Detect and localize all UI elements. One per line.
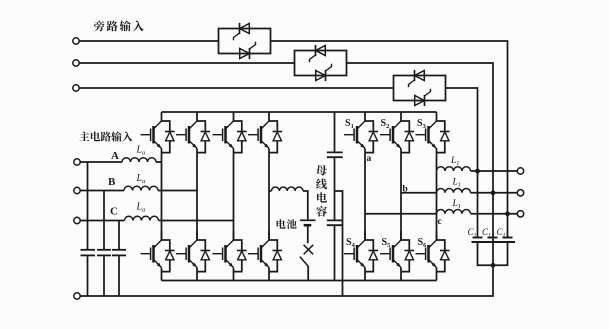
IGBT rectifier leg1 top (162, 112, 170, 153)
input filter capacitor 3 (112, 249, 126, 251)
wire inductor to battery (303, 191, 308, 219)
wire inverter leg2 midpoint (400, 153, 402, 240)
wire cap drop phase B (103, 191, 105, 250)
battery switch blade (300, 257, 308, 267)
battery label 电池 (277, 219, 286, 228)
wire cap drop phase A (87, 162, 89, 249)
junction star point (491, 263, 496, 268)
bypass input terminal S (73, 60, 79, 66)
static switch box 2 (295, 51, 347, 76)
wire bottom DC rail (162, 280, 437, 282)
bypass input terminal T (73, 85, 79, 91)
wire output row3 (471, 213, 518, 215)
wire caps to neutral (88, 256, 120, 296)
wire bypass line 2 left (79, 62, 294, 64)
IGBT rectifier leg1 bottom (162, 231, 170, 272)
wire rectifier leg2 emitter to rail (196, 272, 198, 281)
wire phase A to leg1 (156, 161, 162, 163)
junction row1/bypass3 (475, 169, 480, 174)
wire battery to switch (307, 226, 309, 243)
IGBT rectifier leg3 bottom (234, 231, 242, 272)
IGBT inverter S4 bottom (365, 231, 373, 272)
IGBT inverter S6 bottom (437, 231, 445, 272)
wire bypass line 1 right + drop to output row 3 (271, 41, 508, 237)
output terminal row3 (517, 211, 523, 217)
main input terminal C (74, 217, 80, 223)
wire leg4 to battery inductor (269, 190, 272, 192)
main circuit input label 主电路输入 (79, 131, 89, 141)
IGBT rectifier leg3 top (234, 112, 242, 153)
IGBT rectifier leg4 bottom (269, 231, 277, 272)
IGBT inverter S2 top (401, 112, 409, 153)
static switch box 1 (219, 29, 271, 54)
wire rectifier leg1 midpoint (161, 153, 163, 240)
wire bypass line 2 right + drop to output row 2 (347, 63, 494, 265)
thyristor pair 1 (239, 23, 241, 34)
wire inverter leg1 emitter to rail (364, 272, 366, 281)
wire rectifier leg2 midpoint (196, 153, 198, 240)
inductor La phase B (124, 186, 158, 190)
bypass input label 旁路输入 (94, 21, 105, 32)
output terminal row1 (517, 168, 523, 174)
wire bypass line 1 left (79, 40, 218, 42)
main input terminal A (74, 159, 80, 165)
wire rectifier leg4 midpoint (268, 153, 270, 240)
IGBT inverter S3 top (437, 112, 445, 153)
bus capacitor top (327, 151, 343, 153)
inductor L1 row2 (437, 189, 471, 193)
svg-text:C: C (110, 206, 118, 218)
svg-text:A: A (111, 150, 119, 162)
thyristor pair 3 (414, 70, 416, 81)
wire inverter leg3 emitter to rail (436, 272, 438, 281)
wire switch to bottom rail (307, 266, 309, 281)
output capacitor common bottom plate (472, 241, 516, 243)
wire bypass line 3 right + drop to output row 1 (446, 88, 478, 237)
IGBT inverter S5 bottom (401, 231, 409, 272)
main input terminal B (74, 187, 80, 193)
inductor La phase A (122, 158, 156, 162)
wire phase C (80, 220, 124, 222)
battery cell (300, 219, 316, 221)
wire between bus caps (334, 158, 336, 220)
battery switch breaker X (304, 245, 314, 255)
neutral terminal N (74, 293, 80, 299)
wire leg2 to row2 coil (401, 192, 437, 194)
wire output row1 (471, 170, 518, 172)
wire phase B to leg2 (158, 190, 197, 192)
output terminal row2 (517, 190, 523, 196)
wire rectifier leg1 emitter to rail (161, 272, 163, 281)
wire bus cap drop (334, 112, 336, 152)
svg-text:a: a (367, 154, 372, 164)
bus capacitor bottom (327, 219, 343, 221)
junction row2/bypass2 (491, 190, 496, 195)
output capacitor top plates (473, 237, 483, 239)
wire output row2 (471, 192, 518, 194)
wire rectifier leg4 emitter to rail (268, 272, 270, 281)
IGBT rectifier leg2 top (197, 112, 205, 153)
IGBT rectifier leg4 top (269, 112, 277, 153)
battery inductor (272, 187, 304, 191)
wire bus cap to bottom rail (334, 226, 336, 281)
wire inverter leg3 midpoint (436, 153, 438, 240)
wire bus midpoint to neutral (335, 191, 343, 296)
wire inverter leg1 midpoint (364, 153, 366, 240)
input filter capacitor 2 (97, 249, 111, 251)
bus capacitance label 母线电容 (316, 165, 327, 176)
wire cap drop phase C (118, 221, 120, 250)
wire phase C to leg3 (159, 220, 234, 222)
inductor L1 row1 (437, 167, 471, 171)
input filter capacitor 1 (81, 249, 96, 251)
wire inverter leg2 emitter to rail (400, 272, 402, 281)
inductor La phase C (125, 216, 159, 220)
static switch box 3 (394, 76, 446, 101)
wire phase A (80, 161, 122, 163)
thyristor pair 2 (315, 45, 317, 56)
bypass input terminal R (73, 38, 79, 44)
wire rectifier leg3 midpoint (233, 153, 235, 240)
wire cap bottoms to star point (478, 243, 508, 265)
IGBT inverter S1 top (365, 112, 373, 153)
wire top DC rail (162, 111, 437, 113)
junction row3/bypass1 (505, 211, 510, 216)
wire neutral bus (80, 265, 493, 296)
svg-text:B: B (108, 176, 116, 188)
wire leg1 to row3 coil (365, 213, 437, 215)
wire bypass line 3 left (79, 87, 393, 89)
wire phase B (80, 190, 124, 192)
inductor L1 row3 (437, 210, 471, 214)
IGBT rectifier leg2 bottom (197, 231, 205, 272)
wire rectifier leg3 emitter to rail (233, 272, 235, 281)
svg-text:c: c (438, 217, 442, 227)
